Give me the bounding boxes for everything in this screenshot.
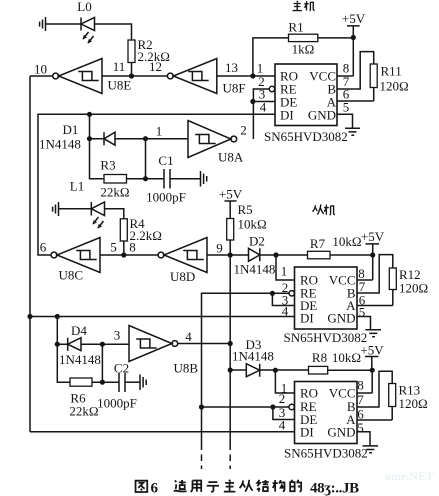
svg-text:U8D: U8D	[170, 269, 195, 284]
svg-text:3: 3	[114, 328, 121, 343]
LED L1	[90, 202, 92, 216]
svg-text:R11: R11	[381, 64, 402, 79]
resistor R2	[128, 40, 135, 63]
node D4 right	[100, 342, 105, 347]
wire slave data bus x230	[229, 255, 231, 444]
IC U1 master SN65HVD3082	[275, 64, 337, 126]
svg-text:GND: GND	[308, 108, 336, 123]
svg-text:4: 4	[282, 304, 289, 319]
+5V supply slave1	[366, 244, 380, 255]
svg-text:U8A: U8A	[218, 150, 244, 165]
inverter U8C	[51, 252, 57, 258]
wire C1 to ground	[170, 178, 201, 180]
svg-text:1N4148: 1N4148	[59, 352, 101, 367]
wire D3 to R8	[260, 369, 309, 371]
svg-text:U8E: U8E	[108, 78, 132, 93]
wire U8C row 5-8	[100, 254, 158, 256]
svg-text:R3: R3	[100, 158, 115, 173]
caption 图6 适用于主从结构的485	[136, 480, 302, 492]
resistor R13	[389, 384, 396, 407]
svg-text:1000pF: 1000pF	[146, 190, 186, 205]
wire DI slave1	[30, 316, 295, 318]
node DI/D1	[87, 112, 92, 117]
ground (C1, sideways right)	[201, 171, 207, 187]
ground (slave1 IC)	[366, 330, 382, 337]
wire D4 branch	[57, 317, 70, 383]
wire D1 row to U8A	[90, 138, 189, 140]
svg-text:10kΩ: 10kΩ	[238, 217, 267, 232]
node RO/R1	[250, 73, 255, 78]
wire D3 row	[230, 369, 246, 371]
inverter U8F	[167, 73, 173, 79]
diode D3 1N4148	[246, 364, 259, 377]
svg-text:1N4148: 1N4148	[39, 137, 81, 152]
node R5/9	[228, 252, 233, 257]
wire GND stub slave1	[357, 317, 371, 330]
svg-text:6: 6	[151, 481, 159, 496]
svg-text:8: 8	[129, 240, 136, 255]
wire D1 branch	[90, 114, 105, 178]
wire R11 to A	[337, 88, 374, 102]
svg-text:48ʒ:..JB: 48ʒ:..JB	[310, 481, 359, 496]
node RE/DE slave1	[270, 291, 275, 296]
wire pin9 to D2	[207, 254, 249, 256]
inverter U8A	[188, 121, 231, 158]
wire RE/DE tie slave2	[273, 407, 295, 420]
svg-text:DI: DI	[280, 108, 294, 123]
svg-text:L0: L0	[77, 0, 91, 14]
svg-text:U8B: U8B	[174, 361, 199, 376]
resistor R6	[70, 378, 92, 386]
svg-text:10kΩ: 10kΩ	[332, 234, 361, 249]
svg-text:C1: C1	[158, 153, 173, 168]
wire U8A output to RE/DE	[253, 89, 269, 139]
RE bubble pin2	[269, 86, 274, 91]
wire RO feed slave2	[275, 370, 294, 393]
resistor R1	[289, 34, 318, 41]
dashed continuation (enable bus)	[201, 444, 203, 470]
svg-text:R8: R8	[312, 350, 327, 365]
svg-text:DI: DI	[300, 311, 314, 326]
wire D2 to R7	[260, 254, 308, 256]
resistor R12	[389, 268, 396, 290]
node D4 left	[55, 342, 60, 347]
svg-text:120Ω: 120Ω	[380, 79, 409, 94]
wire R5 to node	[229, 240, 231, 255]
node U8B out	[228, 341, 233, 346]
svg-text:4: 4	[185, 329, 192, 344]
wire ground to LED L0	[46, 23, 82, 25]
svg-text:SN65HVD3082: SN65HVD3082	[284, 446, 368, 461]
svg-text:1kΩ: 1kΩ	[292, 42, 315, 57]
LED L0	[80, 18, 82, 31]
wire D1/R3 vertical tie	[145, 139, 147, 179]
node R2/12	[129, 73, 134, 78]
wire R4 to node	[123, 241, 125, 255]
svg-text:5: 5	[110, 240, 117, 255]
node RE2 branch	[199, 404, 204, 409]
wire R1 to +5V node	[318, 37, 354, 39]
node D3 left	[228, 367, 233, 372]
svg-text:2: 2	[240, 123, 247, 138]
wire R3 to C1	[127, 178, 165, 180]
wire D4/R6 vertical tie	[101, 344, 103, 382]
svg-text:R7: R7	[310, 236, 326, 251]
svg-text:SN65HVD3082: SN65HVD3082	[284, 330, 368, 345]
node +5V slave1	[370, 252, 375, 257]
node R6/C2	[100, 380, 105, 385]
wire R8 to +5V node slave2	[328, 369, 373, 371]
svg-text:9: 9	[216, 241, 223, 256]
ground (L1 left, sideways)	[53, 202, 59, 216]
svg-text:L1: L1	[70, 179, 84, 194]
svg-text:+5V: +5V	[342, 11, 366, 26]
capacitor C1	[164, 169, 170, 189]
wire D4 row to U8B	[57, 343, 129, 345]
svg-text:GND: GND	[327, 311, 355, 326]
wire RO feed slave1	[276, 255, 295, 280]
svg-text:5: 5	[357, 420, 364, 435]
svg-text:1N4148: 1N4148	[232, 349, 274, 364]
svg-text:120Ω: 120Ω	[399, 396, 428, 411]
ground (slave2 IC)	[363, 446, 379, 453]
svg-text:SN65HVD3082: SN65HVD3082	[264, 129, 348, 144]
dashed continuation (data bus)	[229, 444, 231, 470]
wire RE enable line slave1	[202, 293, 289, 443]
node +5V slave2	[370, 368, 375, 373]
RE bubble slave2	[289, 404, 294, 409]
svg-text:U8C: U8C	[59, 268, 84, 283]
svg-text:1N4148: 1N4148	[234, 262, 276, 277]
wire node 11-12	[102, 75, 167, 77]
svg-text:22kΩ: 22kΩ	[100, 185, 129, 200]
resistor R5	[227, 219, 234, 241]
wire R1 riser	[253, 38, 289, 76]
svg-text:D1: D1	[63, 122, 79, 137]
svg-text:+5V: +5V	[219, 187, 243, 202]
svg-text:GND: GND	[327, 425, 355, 440]
wire GND stub slave2	[357, 432, 370, 446]
node RE/DE slave2	[270, 404, 275, 409]
wire R13 to A slave2	[357, 407, 392, 421]
resistor R4	[120, 219, 127, 241]
wire GND stub master	[337, 114, 353, 128]
node R4/5-8	[121, 252, 126, 257]
svg-text:1: 1	[281, 264, 288, 279]
ground (L0 left, sideways)	[40, 17, 46, 31]
svg-text:7: 7	[357, 392, 364, 407]
wire RE stub slave2	[202, 406, 289, 408]
node D1 right	[143, 136, 148, 141]
node D2/R7	[273, 252, 278, 257]
svg-text:10: 10	[34, 62, 47, 77]
wire pin10 to left bus	[30, 75, 53, 77]
wire left bus x30	[29, 76, 31, 432]
wire LED to R2 corner	[95, 24, 132, 40]
wire B route slave2	[357, 371, 392, 407]
svg-text:5: 5	[343, 100, 350, 115]
resistor R11	[370, 64, 377, 88]
node D3/R8	[273, 368, 278, 373]
svg-text:ome.NET: ome.NET	[385, 469, 434, 483]
wire R6 to C2	[92, 381, 119, 383]
diode D4 1N4148	[68, 338, 81, 351]
node DE master	[250, 99, 255, 104]
wire RE/DE tie slave1	[272, 293, 294, 305]
svg-text:U8F: U8F	[223, 81, 246, 96]
svg-text:5: 5	[359, 305, 366, 320]
wire R12 to A slave1	[357, 290, 393, 306]
diode D1 1N4148	[104, 132, 115, 145]
wire LED to R4 corner	[105, 209, 124, 219]
svg-text:6: 6	[40, 240, 47, 255]
wire B route master	[337, 52, 374, 89]
wire +5V node down to VCC slave1	[357, 255, 373, 280]
node R3/C1	[143, 176, 148, 181]
wire ground to LED L1	[59, 208, 92, 210]
svg-text:2: 2	[279, 391, 286, 406]
resistor R8	[309, 366, 328, 374]
ground (master IC)	[345, 128, 360, 135]
wire DI rail master	[38, 114, 275, 255]
node +5V master	[351, 35, 356, 40]
ground (C2, sideways right)	[140, 375, 146, 391]
svg-text:4: 4	[279, 418, 286, 433]
svg-text:13: 13	[225, 60, 238, 75]
resistor R7	[308, 251, 331, 258]
wire VCC stub	[337, 75, 353, 77]
diode D2 1N4148	[249, 248, 260, 261]
svg-text:120Ω: 120Ω	[399, 281, 428, 296]
resistor R3	[104, 175, 127, 184]
label 主机 (master heading)	[293, 1, 315, 11]
inverter U8D	[158, 252, 164, 258]
svg-text:4: 4	[260, 100, 267, 115]
+5V supply R5	[225, 201, 237, 219]
svg-text:DI: DI	[300, 425, 314, 440]
svg-text:12: 12	[149, 59, 162, 74]
svg-text:C2: C2	[114, 361, 129, 376]
svg-text:R1: R1	[288, 20, 303, 35]
node D1 left	[87, 136, 92, 141]
IC U2 slave1 SN65HVD3082	[295, 267, 358, 329]
inverter U8E	[53, 73, 59, 79]
node DI bus	[27, 314, 32, 319]
IC U3 slave2 SN65HVD3082	[295, 382, 358, 444]
svg-text:22kΩ: 22kΩ	[69, 404, 98, 419]
svg-text:D2: D2	[249, 234, 265, 249]
wire bottom DI rail slave2	[30, 431, 295, 433]
wire +5V node to VCC slave2	[357, 370, 372, 393]
svg-text:D4: D4	[71, 323, 87, 338]
svg-text:1000pF: 1000pF	[97, 396, 137, 411]
svg-text:R5: R5	[238, 202, 253, 217]
wire pin13 to RO pin1	[217, 75, 275, 77]
svg-text:1: 1	[156, 124, 163, 139]
wire C2 to ground	[125, 381, 140, 383]
wire DE stub	[253, 101, 275, 103]
inverter U8B	[129, 326, 172, 362]
capacitor C2	[119, 373, 125, 392]
+5V supply master	[347, 26, 360, 76]
label 从机 (slave heading)	[312, 204, 335, 214]
wire R7 to +5V node	[330, 254, 373, 256]
svg-text:8: 8	[357, 378, 364, 393]
RE bubble slave1	[289, 291, 294, 296]
wire U8B output to bus	[178, 343, 231, 345]
wire R2 to node	[131, 63, 133, 77]
wire B route slave1	[357, 255, 393, 293]
svg-text:11: 11	[113, 59, 126, 74]
+5V supply slave2	[365, 357, 379, 371]
svg-text:10kΩ: 10kΩ	[332, 350, 361, 365]
svg-text:+5V: +5V	[360, 343, 384, 358]
node D4 branch	[55, 314, 60, 319]
svg-text:+5V: +5V	[361, 229, 385, 244]
